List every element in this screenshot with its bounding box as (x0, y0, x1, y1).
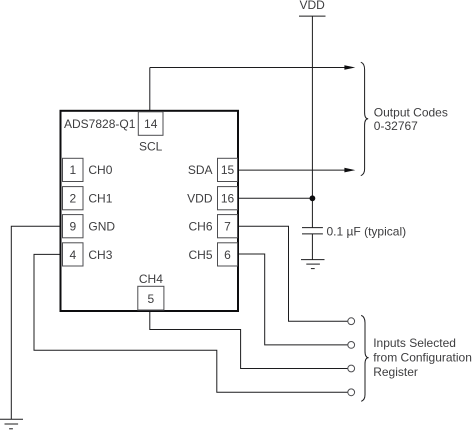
svg-text:SDA: SDA (188, 163, 213, 177)
IC U1 ADS7828-Q1 body (61, 111, 239, 311)
wire VDD rail vertical (311, 16, 313, 228)
svg-text:CH6: CH6 (188, 220, 212, 234)
svg-text:from Configuration: from Configuration (373, 351, 472, 365)
wire CH4 pin 5 to terminal 3 (150, 311, 348, 369)
wire SCL to output (horizontal) (150, 67, 345, 69)
svg-text:14: 14 (144, 117, 158, 131)
svg-text:SCL: SCL (139, 140, 163, 154)
svg-text:CH5: CH5 (188, 248, 212, 262)
svg-text:2: 2 (69, 192, 76, 206)
pin 7 (CH6) box (218, 215, 238, 238)
ground (GND pin, bottom left) (0, 419, 23, 429)
svg-text:CH0: CH0 (88, 163, 112, 177)
svg-text:1: 1 (69, 163, 76, 177)
wire CH5 pin 6 to terminal 2 (238, 254, 348, 345)
capacitor C1 plates (302, 228, 323, 234)
pin 1 (CH0) box (63, 158, 84, 181)
wire SDA to output (238, 169, 345, 171)
svg-text:VDD: VDD (187, 192, 213, 206)
wire SCL to output (vertical) (149, 68, 151, 111)
terminal circle 1 (CH6) (348, 318, 355, 325)
svg-text:16: 16 (221, 192, 235, 206)
svg-text:CH1: CH1 (88, 192, 112, 206)
pin 15 (SDA) box (218, 158, 238, 181)
pin 4 (CH3) box (63, 243, 84, 266)
svg-text:5: 5 (148, 292, 155, 306)
power VDD rail bar (299, 15, 326, 17)
arrow SCL output (344, 65, 355, 70)
svg-text:VDD: VDD (300, 0, 326, 12)
terminal circle 4 (CH3) (348, 389, 355, 396)
svg-text:15: 15 (221, 163, 235, 177)
wire CH3 pin 4 to terminal 4 (34, 254, 348, 392)
pin 5 (CH4) box (138, 286, 164, 310)
svg-text:ADS7828-Q1: ADS7828-Q1 (64, 117, 136, 131)
svg-text:CH4: CH4 (139, 272, 163, 286)
wire capacitor to ground (311, 234, 313, 260)
wire CH6 pin 7 to terminal 1 (238, 226, 348, 321)
svg-text:9: 9 (69, 220, 76, 234)
svg-text:Output Codes: Output Codes (374, 106, 448, 120)
svg-text:GND: GND (88, 220, 115, 234)
wire VDD pin to rail (238, 197, 312, 199)
pin 2 (CH1) box (63, 187, 84, 210)
arrow SDA output (344, 168, 355, 173)
pin 14 (SCL) box (138, 112, 163, 136)
svg-text:7: 7 (224, 220, 231, 234)
svg-text:6: 6 (224, 248, 231, 262)
pin 6 (CH5) box (218, 243, 238, 266)
svg-text:Register: Register (373, 365, 418, 379)
svg-text:CH3: CH3 (88, 248, 112, 262)
junction VDD node (310, 195, 316, 201)
ground (below capacitor) (301, 260, 325, 269)
brace for inputs selected (361, 315, 368, 401)
svg-text:Inputs Selected: Inputs Selected (373, 336, 456, 350)
brace for output codes (361, 62, 368, 175)
svg-text:4: 4 (69, 248, 76, 262)
pin 9 (GND) box (63, 215, 84, 238)
wire GND pin 9 to ground (11, 226, 60, 419)
terminal circle 2 (CH5) (348, 342, 355, 349)
svg-text:0.1 µF (typical): 0.1 µF (typical) (327, 225, 407, 239)
svg-text:0-32767: 0-32767 (374, 119, 418, 133)
terminal circle 3 (CH4) (348, 365, 355, 372)
pin 16 (VDD) box (218, 187, 238, 210)
